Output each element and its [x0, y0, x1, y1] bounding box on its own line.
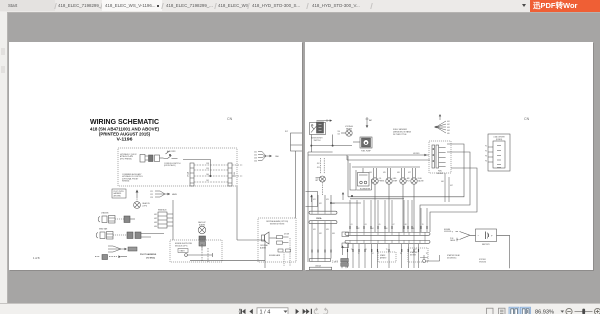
- svg-text:F4: F4: [485, 161, 487, 163]
- svg-text:AUX PWR: AUX PWR: [167, 150, 176, 153]
- svg-text:032: 032: [319, 233, 322, 235]
- svg-text:CAB: CAB: [275, 155, 279, 158]
- wires between CN1A and CN1B: [194, 165, 228, 182]
- svg-text:M: M: [365, 141, 367, 145]
- svg-text:(SENSOR) IN TANK: (SENSOR) IN TANK: [393, 131, 412, 134]
- pilot override label: [140, 253, 157, 260]
- CN1B right stubs: [232, 165, 243, 176]
- svg-text:CB1A: CB1A: [316, 217, 322, 220]
- svg-text:ALARM: ALARM: [199, 223, 205, 226]
- gauge feed corner W5: [347, 155, 430, 167]
- main feed wire W3: [308, 154, 429, 157]
- main bus bar B1: [345, 232, 430, 235]
- svg-text:HOURMETER: HOURMETER: [360, 189, 371, 191]
- svg-text:F3: F3: [485, 156, 487, 158]
- fuel pump motor M1: [353, 137, 372, 148]
- svg-text:054: 054: [369, 172, 372, 174]
- fuel sender note: [393, 129, 412, 136]
- ground G1: [185, 244, 265, 262]
- svg-text:GROUND: GROUND: [479, 261, 487, 263]
- svg-text:158: 158: [206, 163, 209, 165]
- connector J1 plugs: [140, 155, 164, 163]
- back-up alarm lamp L2: [198, 226, 206, 250]
- junction terminal box TB2: [488, 134, 510, 171]
- svg-text:62: 62: [358, 228, 360, 230]
- svg-text:081: 081: [154, 214, 157, 216]
- svg-text:63: 63: [365, 224, 367, 226]
- title block: [90, 119, 160, 141]
- svg-text:PRESS: PRESS: [379, 181, 384, 183]
- solenoid terminal: [420, 255, 440, 263]
- harness text block 2: [122, 173, 143, 183]
- svg-text:(TO ENG): (TO ENG): [146, 258, 155, 260]
- svg-text:083: 083: [154, 222, 157, 224]
- svg-text:(FUSES): (FUSES): [496, 139, 503, 141]
- svg-text:FILT: FILT: [407, 181, 410, 183]
- svg-text:055: 055: [383, 172, 386, 174]
- svg-text:203: 203: [254, 158, 257, 160]
- gauge lamp G2: [316, 158, 326, 195]
- ground G2sym: [341, 245, 344, 255]
- svg-text:CENTRAL ALARM (OPTION): CENTRAL ALARM (OPTION): [266, 220, 289, 223]
- svg-text:441: 441: [447, 121, 450, 123]
- gauge lamp G5: [400, 168, 406, 232]
- circuit breaker CB1A wires: [312, 195, 331, 211]
- svg-text:PILOT HARNESS: PILOT HARNESS: [140, 253, 157, 256]
- svg-text:FUEL: FUEL: [438, 171, 442, 173]
- svg-text:(BROWN): (BROWN): [114, 195, 122, 197]
- battery BT1: [476, 229, 497, 242]
- connector pair P3: [96, 232, 164, 240]
- harness fanout F1: [155, 191, 170, 197]
- svg-text:LOAD CENTER: LOAD CENTER: [493, 136, 505, 139]
- diode D1: [277, 236, 291, 267]
- wire meander at hourmeter: [350, 163, 372, 190]
- gauge lamp G3: [372, 168, 378, 232]
- svg-text:77: 77: [415, 249, 417, 251]
- svg-text:70: 70: [422, 224, 424, 226]
- beacon lamp L1: [134, 199, 141, 209]
- main bus bar B2: [345, 240, 430, 243]
- routing loop W6c: [430, 168, 477, 232]
- svg-text:1 / 4: 1 / 4: [260, 310, 271, 314]
- svg-text:160: 160: [206, 174, 209, 176]
- svg-text:F1: F1: [485, 146, 487, 148]
- svg-text:ALARM: ALARM: [260, 246, 266, 249]
- svg-text:SPARK: SPARK: [380, 254, 386, 257]
- speaker SP1: [262, 232, 277, 244]
- svg-text:64: 64: [372, 228, 374, 230]
- svg-text:084: 084: [154, 226, 157, 228]
- ground bus bar B3: [310, 259, 331, 262]
- svg-text:443: 443: [447, 127, 450, 129]
- svg-text:65: 65: [379, 224, 381, 226]
- voltmeter lamp L3: [341, 130, 352, 136]
- svg-text:202: 202: [254, 155, 257, 157]
- hourmeter H1: [358, 168, 370, 186]
- svg-text:75: 75: [386, 249, 388, 251]
- svg-text:122: 122: [150, 194, 153, 196]
- fanout F2: [108, 246, 137, 252]
- svg-text:SENDER: SENDER: [437, 173, 444, 175]
- svg-text:RLY: RLY: [285, 131, 289, 133]
- battery feed merge W8: [456, 232, 476, 242]
- tab bar: [0, 0, 600, 13]
- svg-text:MOTOR: MOTOR: [410, 254, 417, 256]
- terminal block TB1: [158, 212, 173, 228]
- svg-text:CHASSIS: CHASSIS: [101, 212, 109, 215]
- svg-text:022: 022: [319, 203, 322, 205]
- svg-text:FUEL PUMP: FUEL PUMP: [361, 151, 371, 153]
- svg-text:447: 447: [450, 185, 453, 187]
- engine shutdown dashed box: [170, 240, 222, 262]
- svg-text:038 RED: 038 RED: [413, 153, 420, 155]
- harness text block 1: [120, 153, 137, 160]
- svg-text:201: 201: [254, 152, 257, 154]
- capacitor C1: [342, 232, 349, 248]
- svg-text:SEAT BAR: SEAT BAR: [99, 228, 108, 231]
- svg-text:114: 114: [337, 131, 340, 133]
- svg-text:(HYD PRESS): (HYD PRESS): [120, 158, 132, 160]
- svg-text:78: 78: [426, 253, 428, 255]
- svg-text:BAT: BAT: [369, 119, 372, 122]
- svg-text:WIRING SCHEMATIC: WIRING SCHEMATIC: [90, 119, 159, 126]
- svg-text:031: 031: [313, 229, 316, 231]
- pilot control text box: [112, 189, 126, 198]
- svg-text:115: 115: [337, 134, 340, 136]
- connector bars CN3: [432, 145, 446, 168]
- svg-text:FUEL: FUEL: [418, 178, 422, 180]
- svg-text:052: 052: [317, 163, 320, 165]
- wire arrow W1: [317, 119, 333, 122]
- svg-text:445: 445: [447, 133, 450, 135]
- bottom edge bar B4: [309, 267, 331, 270]
- page 2: [305, 42, 593, 270]
- svg-text:034: 034: [332, 233, 335, 235]
- svg-text:123: 123: [150, 197, 153, 199]
- svg-text:POS: POS: [450, 238, 453, 240]
- svg-text:446: 446: [441, 181, 444, 183]
- svg-text:AIR: AIR: [407, 177, 411, 180]
- svg-text:ENGINE: ENGINE: [444, 229, 450, 231]
- routing loop W6b: [420, 152, 470, 232]
- svg-text:CN: CN: [227, 117, 233, 121]
- fuel sender dashed box: [429, 141, 451, 173]
- cross feed wire W7: [330, 195, 361, 203]
- down feed wire W2: [366, 117, 369, 128]
- svg-text:W/ THROTTLE: W/ THROTTLE: [393, 134, 407, 136]
- svg-text:(OPT): (OPT): [143, 205, 148, 207]
- switch S1 aux power: [164, 151, 178, 159]
- svg-text:PILOT CNTRL: PILOT CNTRL: [114, 191, 124, 193]
- pump arrow A2: [342, 192, 344, 200]
- svg-text:66: 66: [386, 228, 388, 230]
- wire from switch to bus: [183, 159, 211, 176]
- ignition key switch S2: [310, 122, 326, 135]
- svg-text:SYSTEM: SYSTEM: [479, 259, 486, 261]
- harness fanout F4: [434, 114, 446, 133]
- svg-text:024: 024: [332, 203, 335, 205]
- svg-text:67: 67: [393, 224, 395, 226]
- svg-text:023: 023: [326, 199, 329, 201]
- svg-text:−: −: [478, 234, 480, 238]
- svg-text:204: 204: [254, 161, 257, 163]
- svg-text:ENGINE HARN: ENGINE HARN: [269, 254, 281, 257]
- svg-text:2 of 8: 2 of 8: [332, 261, 339, 264]
- bus link wires: [357, 235, 425, 240]
- bottom connector P4: [95, 255, 127, 260]
- sender drop wires W10: [445, 173, 449, 202]
- svg-text:73: 73: [365, 249, 367, 251]
- routing loop W6a: [348, 144, 464, 199]
- svg-text:082: 082: [154, 218, 157, 220]
- bus drop wires bottom: [348, 244, 419, 268]
- svg-text:72: 72: [358, 253, 360, 255]
- CB1 output wires: [312, 224, 331, 259]
- svg-text:+: +: [491, 234, 493, 238]
- gauge lamp G4: [386, 168, 392, 232]
- connector bar CN1A: [190, 163, 194, 186]
- svg-text:BATTERY: BATTERY: [482, 243, 491, 246]
- wire trunk vertical V1: [172, 200, 174, 240]
- circuit breaker bar CB1A: [309, 211, 337, 214]
- svg-text:057: 057: [408, 172, 411, 174]
- connector bar CN1B: [228, 163, 232, 186]
- svg-text:056: 056: [397, 172, 400, 174]
- svg-text:STARTER RELAY: STARTER RELAY: [447, 254, 461, 257]
- svg-text:76: 76: [400, 253, 402, 255]
- svg-text:161: 161: [206, 180, 209, 182]
- svg-text:(FRONT AUX): (FRONT AUX): [164, 164, 176, 167]
- start switch box: [178, 249, 188, 253]
- page 1: [9, 42, 302, 270]
- status bar: [0, 303, 600, 314]
- left collapsed panel strip: [0, 12, 8, 303]
- svg-text:REAR AUX: REAR AUX: [158, 209, 167, 212]
- svg-text:WIRING): WIRING): [122, 181, 130, 183]
- svg-text:CN: CN: [524, 117, 530, 121]
- svg-text:444: 444: [447, 130, 450, 132]
- connector pair P2: [98, 216, 135, 224]
- front aux hydraulics dashed enclosure: [118, 148, 237, 186]
- gauge lamp G6: [411, 168, 417, 232]
- battery cable wires W9: [497, 235, 510, 268]
- svg-text:DIODE: DIODE: [284, 234, 289, 236]
- antenna arrow A1: [136, 190, 139, 199]
- svg-text:+: +: [452, 231, 454, 234]
- svg-text:1 of 8: 1 of 8: [33, 256, 40, 260]
- starter motor dashed box: [408, 248, 428, 262]
- margin module box: [306, 192, 318, 207]
- svg-text:GAUGE: GAUGE: [418, 180, 424, 183]
- svg-text:053: 053: [317, 167, 320, 169]
- svg-text:71: 71: [351, 249, 353, 251]
- svg-text:START: START: [180, 250, 185, 253]
- svg-text:MODULE (OPT): MODULE (OPT): [175, 245, 188, 247]
- svg-text:SWITCH: SWITCH: [314, 140, 321, 142]
- svg-text:OIL: OIL: [379, 178, 382, 180]
- svg-text:61: 61: [351, 224, 353, 226]
- svg-text:86.93%: 86.93%: [535, 310, 554, 314]
- svg-text:68: 68: [405, 224, 407, 226]
- svg-text:WORKS W/ HORN: WORKS W/ HORN: [270, 224, 285, 226]
- battery cable connector stack: [341, 259, 349, 269]
- svg-text:F2: F2: [485, 151, 487, 153]
- svg-text:METER: METER: [346, 128, 353, 130]
- svg-text:CN1A: CN1A: [187, 171, 190, 177]
- svg-text:033: 033: [326, 229, 329, 231]
- wire trunk vertical V2: [237, 186, 265, 268]
- svg-text:GROUND: GROUND: [444, 231, 452, 233]
- circuit breaker bar CB1B: [309, 221, 337, 224]
- svg-text:(SOLENOID): (SOLENOID): [447, 257, 457, 259]
- starter dashed box: [378, 252, 396, 262]
- svg-text:442: 442: [447, 124, 450, 126]
- svg-text:021: 021: [313, 199, 316, 201]
- svg-text:TEMP: TEMP: [393, 181, 397, 183]
- svg-text:ENG: ENG: [393, 178, 397, 180]
- svg-text:69: 69: [413, 228, 415, 230]
- svg-text:159: 159: [206, 168, 209, 170]
- svg-text:HARN: HARN: [172, 193, 178, 196]
- ignition feed wires W4: [308, 135, 352, 263]
- fanout F3: [258, 152, 272, 161]
- bus riser wires top: [350, 200, 427, 232]
- svg-text:121: 121: [150, 191, 153, 193]
- central alarm dashed box: [258, 218, 296, 262]
- svg-text:74: 74: [372, 253, 374, 255]
- svg-text:V-1196: V-1196: [117, 136, 134, 141]
- relay box at page edge: [291, 133, 303, 218]
